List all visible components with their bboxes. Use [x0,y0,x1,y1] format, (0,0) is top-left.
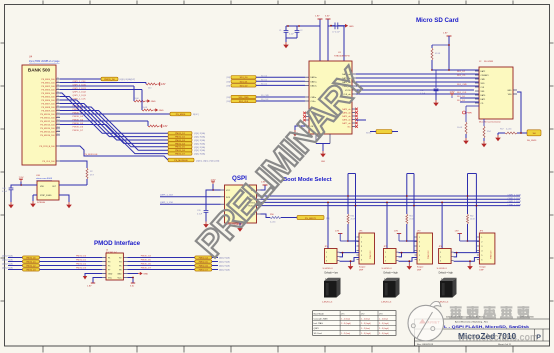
svg-text:SD1_CLK: SD1_CLK [457,92,467,94]
svg-text:2 - 3 (high): 2 - 3 (high) [379,328,389,330]
svg-text:2: 2 [361,242,362,244]
svg-text:P4: P4 [119,262,121,264]
svg-text:SD1_CLK: SD1_CLK [239,101,249,103]
svg-text:20.0K: 20.0K [470,219,476,221]
svg-text:PS_MIO5_500: PS_MIO5_500 [41,96,55,98]
svg-text:BANK 500: BANK 500 [28,68,51,73]
svg-text:1.8V: 1.8V [315,16,320,18]
svg-text:QSPI_1_DQ1: QSPI_1_DQ1 [508,198,522,200]
svg-text:SiT8008i: SiT8008i [37,202,45,204]
svg-text:PMOD_D4: PMOD_D4 [141,256,152,258]
svg-text:PMOD_D3: PMOD_D3 [73,116,84,118]
svg-text:[5B]: [5B] [227,85,231,87]
svg-text:GND: GND [321,161,326,163]
svg-text:PS_CLK_500: PS_CLK_500 [42,161,55,163]
svg-text:CMD: CMD [481,79,486,81]
svg-text:SD1_D2: SD1_D2 [240,85,249,87]
svg-text:5: 5 [361,255,362,257]
svg-text:Default = high: Default = high [439,272,454,275]
svg-text:VCC: VCC [108,278,113,280]
svg-text:2: 2 [440,256,441,258]
svg-text:XTBP_XGND: XTBP_XGND [40,195,52,197]
svg-text:SD1_D2: SD1_D2 [457,71,466,73]
svg-text:2 - 3 (high): 2 - 3 (high) [341,323,351,325]
svg-text:SD_D0: SD_D0 [261,75,267,77]
svg-text:P7: P7 [108,270,110,272]
svg-text:[4][6], R[4A]: [4][6], R[4A] [194,142,205,145]
svg-text:0.1uF: 0.1uF [289,34,295,36]
svg-text:P3: P3 [108,262,110,264]
svg-text:PMOD_D6: PMOD_D6 [141,264,152,266]
svg-text:S-14C4D-3: S-14C4D-3 [382,268,393,270]
svg-text:2 - 3 (high): 2 - 3 (high) [379,333,389,335]
svg-text:C2: C2 [300,30,302,32]
svg-text:PS_SRST#: PS_SRST# [305,218,317,220]
svg-text:0.1uF: 0.1uF [197,214,203,216]
svg-text:[4][6], R[4A]: [4][6], R[4A] [194,153,205,156]
svg-text:DAT0a: DAT0a [311,76,318,79]
svg-text:Keeper: Keeper [479,267,486,269]
svg-text:[4][6], R[4A]: [4][6], R[4A] [219,265,230,268]
svg-text:VDD: VDD [481,83,486,85]
svg-text:DAT1: DAT1 [481,98,486,101]
svg-text:DNP: DNP [359,270,364,272]
svg-text:2: 2 [385,256,386,258]
svg-text:QSPI_1_DQ0: QSPI_1_DQ0 [508,195,522,197]
svg-text:1 - 2 (low): 1 - 2 (low) [361,318,370,320]
svg-text:Default = high: Default = high [384,272,399,275]
svg-text:R[4C]: R[4C] [193,114,199,116]
svg-text:C1: C1 [279,30,281,32]
svg-text:20.0K: 20.0K [351,219,357,221]
svg-text:1.8V: 1.8V [443,33,448,35]
svg-text:1: 1 [481,237,482,239]
svg-text:DAT2a: DAT2a [311,84,318,87]
svg-text:PS_MIO16_500: PS_MIO16_500 [40,135,55,137]
svg-text:[5B]: [5B] [227,101,231,103]
svg-text:S-14C4D-3: S-14C4D-3 [323,268,334,270]
svg-text:GND: GND [117,274,122,276]
svg-text:DAT1a: DAT1a [311,80,318,83]
svg-text:PS_MIO4_500: PS_MIO4_500 [41,93,55,95]
svg-text:DNP: DNP [479,270,484,272]
svg-text:PMOD_D5: PMOD_D5 [199,261,208,263]
svg-text:TSW-103: TSW-103 [428,250,430,259]
svg-text:[5B]: [5B] [227,77,231,79]
svg-text:1: 1 [385,252,386,254]
svg-text:[4][6], R[4A]: [4][6], R[4A] [2,254,13,257]
svg-text:DAT7_ab: DAT7_ab [342,122,351,125]
svg-text:PMOD_D1: PMOD_D1 [76,260,87,262]
svg-text:1-SK29-1-6: 1-SK29-1-6 [381,302,392,304]
svg-text:3: 3 [385,261,386,263]
svg-text:3.3V: 3.3V [325,16,330,18]
svg-text:TSW-103: TSW-103 [490,250,492,259]
svg-text:PMOD_D3: PMOD_D3 [26,269,35,271]
svg-text:[4][6], R[4A]: [4][6], R[4A] [194,139,205,142]
svg-text:PMOD_D2: PMOD_D2 [26,265,35,267]
svg-text:Rev: 03/02/2013: Rev: 03/02/2013 [417,344,434,346]
svg-text:GND: GND [151,101,156,103]
svg-text:200K: 200K [134,98,139,100]
svg-text:Micro SD Card Connector: Micro SD Card Connector [479,121,501,124]
svg-text:C7 0.1uF: C7 0.1uF [332,32,341,34]
svg-text:2 - 3 (high): 2 - 3 (high) [361,333,371,335]
svg-text:6: 6 [361,260,362,262]
svg-text:SD_D2: SD_D2 [261,84,267,86]
svg-text:PS_POR_B_500: PS_POR_B_500 [39,146,55,148]
svg-text:SD1_CMD: SD1_CMD [457,84,467,86]
svg-text:PMOD_D7: PMOD_D7 [141,268,152,270]
svg-text:1.8V: 1.8V [87,286,92,288]
svg-text:VCC: VCC [118,278,123,280]
svg-text:Ind. JTAG: Ind. JTAG [314,322,324,325]
svg-text:PS_MIO11_500: PS_MIO11_500 [40,117,55,119]
svg-text:GND: GND [143,274,148,276]
svg-text:1.8V: 1.8V [394,231,399,233]
svg-text:SH_GND1: SH_GND1 [527,140,537,142]
svg-text:S-14C4D-3: S-14C4D-3 [437,268,448,270]
svg-text:TXB0108QSTW: TXB0108QSTW [334,56,351,58]
svg-text:1.8V: 1.8V [211,180,216,182]
svg-text:SD Card: SD Card [314,332,323,335]
svg-text:0.1uF: 0.1uF [2,191,8,193]
svg-text:[4][6], R[4A][5P]: [4][6], R[4A][5P] [120,78,136,81]
svg-text:1: 1 [326,252,327,254]
svg-text:PMOD_D2: PMOD_D2 [76,264,87,266]
svg-text:Micro SD Card: Micro SD Card [416,17,459,24]
svg-text:Zynq TRM UG585 v1.2 page: Zynq TRM UG585 v1.2 page [29,60,60,63]
svg-text:[4][6], R[4A]: [4][6], R[4A] [2,266,13,269]
svg-text:1 - 2 (low): 1 - 2 (low) [341,318,350,320]
svg-text:20.0K: 20.0K [409,219,415,221]
svg-text:P1: P1 [108,258,110,260]
svg-text:PS_MODULE: PS_MODULE [84,154,98,156]
svg-text:[4][6], R[4A]: [4][6], R[4A] [194,146,205,149]
svg-text:PS_MIO15_500: PS_MIO15_500 [40,131,55,133]
svg-text:SD1_D0: SD1_D0 [240,77,249,79]
svg-text:PS_MIO9_500: PS_MIO9_500 [41,110,55,112]
svg-text:4: 4 [481,251,482,253]
svg-text:P5: P5 [108,266,110,268]
svg-text:3: 3 [440,261,441,263]
svg-text:R62: R62 [470,216,473,218]
svg-text:[4][6], R[4A]: [4][6], R[4A] [2,262,13,265]
svg-text:PMOD_D6: PMOD_D6 [73,127,84,129]
svg-text:5: 5 [419,255,420,257]
svg-text:www.elecfans.com: www.elecfans.com [457,333,538,344]
svg-text:[4][6], R[4A]: [4][6], R[4A] [2,258,13,261]
svg-text:PMOD_D7: PMOD_D7 [175,154,186,156]
svg-text:QSPI_1_DQ3: QSPI_1_DQ3 [73,95,87,97]
svg-text:DAT0: DAT0 [481,94,486,97]
svg-text:SD_CMD: SD_CMD [261,95,270,97]
svg-text:PS_MIO3_500: PS_MIO3_500 [41,89,55,91]
svg-text:SD_D1: SD_D1 [261,79,267,81]
svg-text:SD_CLK: SD_CLK [261,99,269,101]
svg-text:Keeper: Keeper [417,267,424,269]
svg-text:GND: GND [108,274,113,276]
svg-text:SDV0: SDV0 [366,133,372,135]
svg-text:1 - 2 (low): 1 - 2 (low) [361,328,370,330]
svg-text:0-ohm: 0-ohm [270,222,276,224]
svg-text:[5B]: [5B] [227,97,231,99]
svg-text:R61: R61 [409,216,412,218]
svg-text:GND: GND [507,90,512,92]
svg-text:CD/DAT3: CD/DAT3 [481,74,489,77]
svg-text:PWR: PWR [467,113,473,115]
svg-text:QSPI_1_DQ2: QSPI_1_DQ2 [73,92,87,94]
svg-text:3: 3 [481,246,482,248]
svg-text:[4][6], R[4A]: [4][6], R[4A] [194,149,205,152]
svg-text:49.9K: 49.9K [435,53,441,55]
svg-text:0-ohm: 0-ohm [506,129,512,131]
svg-text:PS_MIO2_500: PS_MIO2_500 [41,86,55,88]
svg-text:1.8V: 1.8V [161,84,166,86]
svg-text:[4][6], R[4A]: [4][6], R[4A] [194,132,205,135]
svg-text:PMOD_D0: PMOD_D0 [76,256,87,258]
svg-text:Keeper: Keeper [359,267,366,269]
svg-text:SD-24389: SD-24389 [484,61,494,63]
svg-text:P2: P2 [119,258,121,260]
svg-text:PMOD_D0: PMOD_D0 [26,257,35,259]
svg-text:PS_MIO6_500: PS_MIO6_500 [41,100,55,102]
svg-text:1.8V: 1.8V [455,231,460,233]
svg-text:1: 1 [419,237,420,239]
svg-text:QSPI_1_DQ3: QSPI_1_DQ3 [508,204,522,206]
svg-text:2 - 3 (high): 2 - 3 (high) [379,323,389,325]
svg-text:PMOD Interface: PMOD Interface [94,240,141,247]
svg-text:PMOD_D0: PMOD_D0 [104,79,115,81]
svg-text:PMOD_D1: PMOD_D1 [26,261,35,263]
svg-text:PMOD_D7: PMOD_D7 [73,130,84,132]
svg-text:1: 1 [361,237,362,239]
svg-text:GND: GND [349,26,354,28]
svg-text:PS_MODULE: PS_MODULE [174,160,188,162]
svg-text:Boot Mode:: Boot Mode: [314,312,325,315]
svg-text:1.8V: 1.8V [19,177,24,179]
svg-text:1-SK29-1-6: 1-SK29-1-6 [322,302,333,304]
svg-text:PS_MIO6: PS_MIO6 [176,114,186,116]
svg-text:PS_MIO13_500: PS_MIO13_500 [40,124,55,126]
svg-text:3: 3 [419,246,420,248]
svg-text:1.8V: 1.8V [335,231,340,233]
svg-text:QSPI: QSPI [314,328,319,330]
svg-text:VDD: VDD [40,186,45,188]
svg-text:PMOD_D7: PMOD_D7 [199,269,208,271]
svg-text:Avnet Electronics Marketing -: Avnet Electronics Marketing - Rev [455,321,489,324]
svg-text:PMOD_D6: PMOD_D6 [199,265,208,267]
svg-text:QSPI_1_DQ2: QSPI_1_DQ2 [508,201,522,203]
svg-text:P8: P8 [119,270,121,272]
svg-text:2: 2 [481,242,482,244]
svg-text:4: 4 [419,251,420,253]
svg-text:[4][6], R[4A]: [4][6], R[4A] [194,136,205,139]
svg-text:PMOD_D3: PMOD_D3 [76,268,87,270]
svg-text:L - QSPI FLASH, MicroSD, SanDi: L - QSPI FLASH, MicroSD, SanDisk [444,325,530,329]
svg-text:PMOD_D5: PMOD_D5 [141,260,152,262]
svg-text:GND: GND [159,110,164,112]
svg-text:6: 6 [419,260,420,262]
svg-text:PS_MIO12_500: PS_MIO12_500 [40,121,55,123]
svg-text:PS_MIO1_500: PS_MIO1_500 [41,82,55,84]
svg-text:Default = low: Default = low [325,272,339,275]
svg-text:TSW-103: TSW-103 [370,250,372,259]
svg-text:R60: R60 [351,216,354,218]
svg-text:PS_MIO0_500: PS_MIO0_500 [41,79,55,81]
svg-text:10.0K: 10.0K [457,127,463,129]
svg-text:2 - 3 (high): 2 - 3 (high) [361,323,371,325]
svg-text:2: 2 [326,256,327,258]
svg-text:PS_MIO8_500: PS_MIO8_500 [41,107,55,109]
svg-text:20.0K: 20.0K [142,107,148,109]
svg-text:SD1_D1: SD1_D1 [240,81,249,83]
svg-text:P6: P6 [119,266,121,268]
svg-text:SD1_CD: SD1_CD [457,75,466,77]
svg-text:SD1_CMD: SD1_CMD [239,97,249,99]
svg-text:PMOD_D4: PMOD_D4 [199,257,208,259]
svg-text:2: 2 [419,242,420,244]
svg-text:6: 6 [481,260,482,262]
svg-text:[5B]: [5B] [227,81,231,83]
svg-text:5: 5 [481,255,482,257]
svg-text:1 - 2 (low): 1 - 2 (low) [379,318,388,320]
svg-text:3: 3 [361,246,362,248]
svg-text:PS_MIO14_500: PS_MIO14_500 [40,128,55,130]
svg-text:1.8V: 1.8V [163,126,168,128]
svg-text:Cascade JTAG: Cascade JTAG [314,317,328,320]
svg-text:DAT2: DAT2 [481,70,486,73]
svg-text:PS_MIO7_500: PS_MIO7_500 [41,103,55,105]
svg-text:[4][6], R[4A]: [4][6], R[4A] [219,269,230,272]
svg-text:1 - 2 (low): 1 - 2 (low) [341,333,350,335]
svg-text:sitime.com 8008: sitime.com 8008 [36,177,53,180]
svg-text:DNP: DNP [417,270,422,272]
svg-text:PS_MIO10_500: PS_MIO10_500 [40,114,55,116]
svg-text:1.8V: 1.8V [450,92,455,94]
svg-text:1: 1 [440,252,441,254]
svg-text:3: 3 [326,261,327,263]
svg-text:4: 4 [361,251,362,253]
svg-text:[4][6C], [6][C], [7][D], [4A]: [4][6C], [6][C], [7][D], [4A] [196,159,220,162]
